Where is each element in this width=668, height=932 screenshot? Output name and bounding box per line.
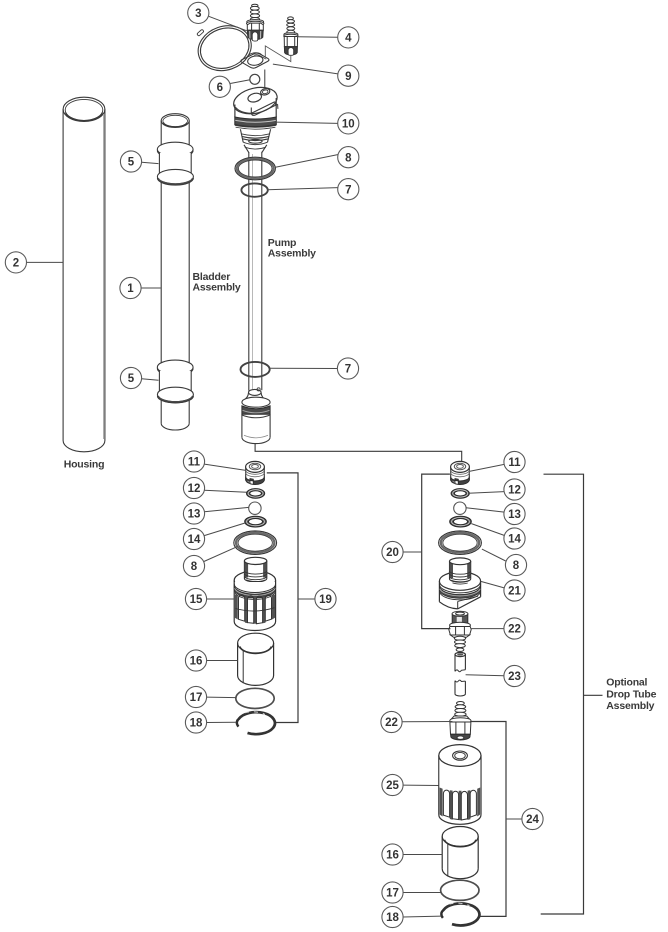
svg-text:5: 5	[128, 157, 135, 169]
leader 1	[141, 287, 161, 289]
callout 22 (2)	[381, 711, 402, 732]
svg-text:Assembly: Assembly	[193, 281, 241, 293]
check valve seat item 11 right	[451, 461, 470, 484]
callout 22	[504, 618, 525, 639]
check valve seat item 11 left	[246, 461, 265, 484]
svg-text:12: 12	[188, 483, 201, 495]
leader 10	[276, 122, 338, 123]
svg-text:8: 8	[191, 561, 198, 573]
o-ring item 17 left	[236, 688, 274, 708]
callout 17	[185, 686, 206, 707]
leader 19	[298, 598, 315, 600]
leader 12 right	[468, 492, 504, 494]
leader 11 left	[204, 464, 246, 470]
callout 8	[338, 147, 359, 168]
hose barb fitting item 22 lower	[450, 702, 471, 741]
callout 2	[5, 252, 26, 273]
svg-text:Housing: Housing	[64, 459, 105, 471]
leader 22 lower	[402, 721, 452, 723]
leader 13 left	[204, 507, 248, 511]
svg-text:17: 17	[190, 692, 203, 704]
svg-text:23: 23	[508, 671, 521, 683]
snap ring item 18 left	[237, 712, 275, 734]
callout 8 (3)	[505, 554, 526, 575]
callout 20	[382, 541, 403, 562]
housing item 2	[63, 97, 105, 452]
callout 10	[338, 113, 359, 134]
o-ring item 7 lower	[241, 362, 270, 377]
pump bottom fitting	[242, 388, 270, 444]
callout 16 (2)	[382, 844, 403, 865]
leader 8 left	[204, 546, 238, 561]
pump head item 10	[231, 83, 280, 117]
o-ring item 12 right	[451, 488, 469, 498]
ball item 13 left	[249, 502, 261, 514]
svg-text:3: 3	[195, 8, 201, 20]
leader 2	[27, 261, 64, 263]
callout 3	[188, 2, 209, 23]
svg-text:22: 22	[385, 717, 398, 729]
callout 21	[504, 580, 525, 601]
svg-text:13: 13	[508, 509, 521, 521]
svg-text:8: 8	[513, 560, 520, 572]
callout 24	[522, 808, 543, 829]
svg-text:5: 5	[128, 373, 135, 385]
svg-text:14: 14	[188, 534, 201, 546]
svg-text:13: 13	[188, 509, 201, 521]
svg-text:16: 16	[190, 656, 203, 668]
bracket item 19	[267, 473, 298, 723]
bladder lower collar rings item 5	[157, 360, 193, 403]
hanger loop ring	[192, 19, 257, 78]
leader 18 right	[403, 915, 441, 918]
leader 16 right	[403, 854, 442, 856]
pump shaft tube	[249, 152, 262, 391]
leader 25	[403, 784, 439, 786]
callout 18 (2)	[382, 906, 403, 927]
svg-text:7: 7	[345, 184, 351, 196]
leader 5 lower	[142, 379, 159, 380]
leader 3	[209, 16, 247, 31]
svg-text:Assembly: Assembly	[606, 700, 654, 712]
callout 7 (2)	[337, 358, 358, 379]
pump head threaded band	[235, 117, 276, 129]
svg-text:24: 24	[526, 814, 539, 826]
svg-text:1: 1	[127, 283, 134, 295]
bracket optional drop tube assembly	[541, 474, 584, 914]
bladder assembly tube item 1	[161, 114, 189, 430]
callout 4	[338, 27, 359, 48]
svg-text:2: 2	[13, 258, 19, 270]
callout 12	[183, 477, 204, 498]
hose barb fitting item 3	[247, 4, 264, 41]
svg-text:18: 18	[386, 912, 399, 924]
svg-text:17: 17	[386, 888, 399, 900]
o-ring item 8 left	[234, 531, 277, 555]
plate item 9	[241, 52, 269, 69]
svg-text:21: 21	[508, 586, 521, 598]
callout 18	[185, 712, 206, 733]
callout 1	[120, 277, 141, 298]
svg-text:8: 8	[345, 152, 352, 164]
leader 9	[273, 64, 338, 74]
callout 11 (2)	[504, 451, 525, 472]
callout 17 (2)	[382, 882, 403, 903]
callout 25	[382, 774, 403, 795]
wire from plate to pump head hole	[264, 70, 266, 90]
callout 9	[338, 65, 359, 86]
leader 6	[230, 80, 250, 84]
callout 13 (2)	[504, 503, 525, 524]
leader 17 right	[403, 892, 441, 894]
svg-text:11: 11	[188, 457, 201, 469]
sleeve cylinder item 16 right	[442, 826, 478, 878]
svg-text:Optional: Optional	[606, 676, 647, 688]
leader 8 top	[275, 155, 338, 168]
callout 8 (2)	[183, 555, 204, 576]
sleeve cylinder item 16 left	[238, 633, 274, 685]
leader 12 left	[204, 490, 246, 492]
leader 18 left	[207, 721, 237, 723]
svg-text:14: 14	[508, 534, 521, 546]
check valve body item 21	[439, 558, 480, 609]
callout 14 (2)	[504, 528, 525, 549]
ball item 13 right	[454, 502, 466, 514]
svg-text:4: 4	[345, 33, 352, 45]
hose barb fitting item 4	[284, 17, 298, 55]
svg-text:25: 25	[386, 780, 399, 792]
bracket item 24	[471, 722, 506, 917]
svg-text:16: 16	[386, 850, 399, 862]
svg-text:20: 20	[386, 547, 399, 559]
wire connector from pump bottom to drop tube assembly	[255, 444, 462, 462]
leader 24	[506, 818, 522, 820]
bladder upper collar rings item 5	[157, 142, 193, 185]
leader 8 right	[482, 549, 506, 561]
svg-text:9: 9	[345, 71, 351, 83]
drop tube item 23	[455, 652, 465, 696]
callout 7	[338, 179, 359, 200]
zigzag jog leader from item 4 to plate	[265, 46, 291, 62]
leader 14 left	[204, 523, 245, 536]
o-ring item 17 right	[441, 880, 479, 900]
svg-text:12: 12	[508, 485, 521, 497]
leader 7 lower	[270, 367, 338, 369]
bracket item 20	[422, 474, 451, 628]
callout 14	[183, 528, 204, 549]
svg-text:7: 7	[345, 364, 351, 376]
inlet screen cage item 15	[234, 557, 275, 630]
small o-ring item 6	[250, 74, 260, 84]
o-ring item 14 left	[245, 516, 267, 527]
leader 16 left	[207, 660, 238, 662]
snap ring item 18 right	[441, 903, 479, 925]
svg-text:Assembly: Assembly	[268, 248, 316, 260]
leader 23	[466, 675, 504, 676]
leader 13 right	[466, 508, 504, 512]
leader 14 right	[471, 524, 504, 536]
callout 15	[185, 588, 206, 609]
o-ring item 7 top	[241, 183, 267, 196]
leader 17 left	[207, 696, 236, 699]
svg-text:Drop Tube: Drop Tube	[606, 688, 656, 700]
o-ring item 12 left	[246, 488, 264, 498]
callout 13	[183, 503, 204, 524]
label stub optional drop tube assembly	[584, 694, 603, 696]
svg-text:6: 6	[217, 82, 223, 94]
o-ring item 8 right	[439, 531, 482, 555]
callout 5	[120, 151, 141, 172]
callout 11	[183, 451, 204, 472]
callout 6	[209, 76, 230, 97]
svg-text:18: 18	[190, 718, 203, 730]
strainer cage item 25	[439, 745, 481, 825]
leader 15	[207, 598, 235, 600]
leader 20	[403, 551, 422, 553]
hanger loop slit	[197, 29, 204, 36]
leader 4	[297, 36, 338, 39]
callout 5 (2)	[120, 367, 141, 388]
svg-text:10: 10	[342, 119, 355, 131]
pump head lower neck	[240, 129, 270, 152]
callout 16	[185, 650, 206, 671]
hose barb fitting item 22 upper	[449, 611, 471, 651]
leader 5 upper	[142, 162, 159, 163]
svg-text:19: 19	[319, 594, 332, 606]
callout 23	[504, 665, 525, 686]
leader lines	[27, 16, 522, 917]
leader 21	[481, 581, 504, 588]
o-ring item 14 right	[450, 516, 472, 527]
leader 22 upper	[471, 628, 504, 630]
leader 7 top	[267, 188, 338, 190]
callout 12 (2)	[504, 479, 525, 500]
o-ring item 8 top	[235, 157, 275, 180]
svg-text:22: 22	[508, 624, 521, 636]
leader 11 right	[470, 464, 504, 471]
callout 19	[315, 588, 336, 609]
svg-text:15: 15	[190, 594, 203, 606]
svg-text:11: 11	[508, 457, 521, 469]
